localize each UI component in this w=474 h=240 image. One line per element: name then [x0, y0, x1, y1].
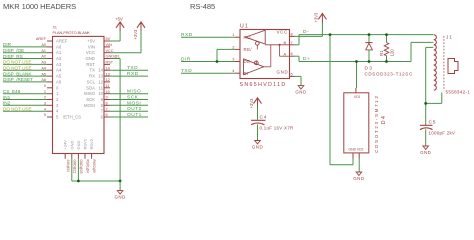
svg-text:A5: A5: [56, 74, 62, 79]
wire net DISP_BLANK at X1 pin A5: [3, 71, 47, 76]
transceiver U1 SN65HVD11D: [240, 23, 290, 88]
svg-text:DE: DE: [244, 59, 251, 64]
wire J1 shield to ground rail: [426, 93, 442, 104]
svg-text:SN65HVD11D: SN65HVD11D: [240, 82, 287, 88]
svg-text:GND@22: GND@22: [72, 160, 76, 174]
supply +3V3 arrow at C4: [249, 98, 261, 109]
svg-text:CS_E48: CS_E48: [3, 89, 21, 94]
svg-text:DO NOT USE: DO NOT USE: [3, 107, 32, 112]
svg-text:RXD: RXD: [127, 71, 139, 77]
svg-text:VIN: VIN: [88, 44, 95, 49]
svg-text:DISP_RS: DISP_RS: [3, 54, 23, 59]
svg-text:I/O1: I/O1: [354, 95, 361, 99]
connector J1 5558342-1: [434, 35, 471, 95]
svg-text:A1: A1: [56, 50, 62, 55]
svg-text:MISO: MISO: [84, 91, 96, 96]
wire D- branch to D4 lower pin: [330, 35, 353, 165]
svg-text:DISP_/RESET: DISP_/RESET: [3, 77, 33, 82]
svg-text:OUT1: OUT1: [127, 112, 142, 118]
svg-text:14: 14: [106, 66, 110, 70]
svg-text:X1: X1: [53, 26, 57, 30]
svg-text:TXD: TXD: [127, 65, 138, 71]
svg-text:D4: D4: [381, 114, 387, 124]
wire net OUT2 from X1: [110, 106, 148, 112]
svg-text:A2: A2: [56, 56, 62, 61]
wire net CS_E48 at X1 pin 1: [3, 89, 47, 94]
svg-text:MISO: MISO: [127, 89, 141, 95]
svg-text:D+: D+: [303, 56, 310, 62]
wire net MOSI from X1: [110, 100, 148, 106]
wire net IN1 at X1 pin 2: [3, 95, 47, 100]
wire U1 VCC to +3V3: [295, 22, 323, 37]
svg-text:GND: GND: [295, 90, 306, 95]
svg-text:A4: A4: [56, 68, 62, 73]
connector X1 MKR header: [53, 26, 105, 154]
svg-text:DISP_/OE: DISP_/OE: [3, 48, 24, 53]
capacitor C5 1000pF 2kV: [420, 120, 455, 146]
svg-text:5V: 5V: [106, 37, 111, 41]
svg-text:12: 12: [98, 79, 103, 84]
svg-text:GND: GND: [76, 141, 81, 150]
junction DIR riser: [216, 60, 219, 63]
svg-text:MOSI: MOSI: [127, 100, 141, 106]
wire net DO NOT USE at X1 pin A4: [3, 66, 47, 71]
svg-text:RSV2@5: RSV2@5: [92, 160, 96, 174]
svg-text:+24V: +24V: [63, 140, 68, 150]
svg-text:J1: J1: [446, 35, 453, 41]
svg-text:8: 8: [106, 102, 108, 106]
wire net RXD from X1: [110, 71, 148, 77]
wire D+ branch to D4 pin1: [356, 62, 358, 89]
svg-text:A0: A0: [56, 44, 62, 49]
U1 right pins 8,7,6,5: [290, 31, 295, 76]
capacitor C4 0.1uF 16V X7R: [251, 106, 293, 140]
svg-text:DIR: DIR: [3, 42, 12, 47]
svg-text:120: 120: [389, 49, 394, 57]
svg-text:A: A: [284, 52, 287, 57]
svg-text:DO NOT USE: DO NOT USE: [3, 60, 32, 65]
svg-text:DISP_BLANK: DISP_BLANK: [3, 71, 32, 76]
svg-text:11: 11: [99, 85, 104, 90]
svg-text:11: 11: [106, 84, 110, 88]
svg-text:DIR: DIR: [181, 56, 191, 62]
svg-text:GND: GND: [420, 150, 431, 155]
svg-text:13: 13: [106, 72, 110, 76]
svg-text:GND@23: GND@23: [79, 160, 83, 174]
wire net DIR at X1 pin A0: [3, 42, 47, 47]
wire net DISP_RS at X1 pin A2: [3, 54, 47, 59]
svg-text:RXD: RXD: [181, 32, 193, 38]
junction D3 top: [368, 33, 371, 36]
wire net RXD to U1 RO: [181, 32, 235, 38]
svg-text:SCK: SCK: [86, 97, 95, 102]
svg-text:10: 10: [106, 90, 110, 94]
svg-text:OUT2: OUT2: [127, 106, 142, 112]
svg-text:A3: A3: [56, 62, 62, 67]
svg-text:24V@21: 24V@21: [66, 160, 70, 173]
wire net SCK from X1: [110, 95, 148, 101]
svg-text:1000pF 2kV: 1000pF 2kV: [429, 131, 456, 136]
svg-text:AREF: AREF: [56, 39, 68, 44]
svg-text:SCL: SCL: [87, 79, 96, 84]
svg-text:MOSI: MOSI: [84, 103, 95, 108]
svg-text:MKR 1000 HEADERS: MKR 1000 HEADERS: [3, 2, 76, 11]
ground symbol at C4: [255, 141, 261, 144]
svg-text:5558342-1: 5558342-1: [446, 89, 471, 94]
svg-text:R1: R1: [379, 50, 384, 56]
wire net OUT1 from X1: [110, 112, 148, 118]
diode array D4 CDSOT23-SM712: [344, 88, 387, 159]
svg-text:RX: RX: [89, 74, 95, 79]
svg-text:GND I/O2: GND I/O2: [349, 148, 364, 152]
wire net TXD to U1 DI: [181, 68, 235, 74]
wire GND net from X1 GND pin: [110, 59, 120, 182]
svg-text:7: 7: [106, 107, 108, 111]
junction D+ branch: [355, 60, 358, 63]
svg-text:GND: GND: [114, 195, 125, 200]
svg-text:RSV1: RSV1: [83, 138, 88, 149]
svg-text:TXD: TXD: [181, 68, 192, 74]
svg-text:14: 14: [98, 68, 103, 73]
svg-text:RO: RO: [244, 35, 252, 40]
junction at ground rail drop: [119, 180, 122, 183]
svg-text:GND: GND: [277, 70, 289, 75]
wire net D- from U1 B to J1: [295, 29, 434, 45]
svg-text:5: 5: [44, 113, 46, 117]
supply +3V3 arrow at U1: [314, 12, 327, 23]
svg-text:+3V3: +3V3: [249, 98, 254, 109]
svg-text:IN2: IN2: [3, 101, 11, 106]
wire net DISP_/OE at X1 pin A1: [3, 48, 47, 53]
resistor R1 120: [379, 35, 394, 62]
diode D3 CDSOD323-T12SC: [365, 35, 413, 77]
wire net DO NOT USE at X1 pin 4: [3, 107, 47, 112]
junction R1 bottom: [385, 60, 388, 63]
ground symbol below X1: [114, 181, 125, 200]
svg-text:RSV1@4: RSV1@4: [86, 160, 90, 174]
svg-text:+5V: +5V: [115, 17, 123, 22]
svg-text:CDSOT23-SM712: CDSOT23-SM712: [374, 94, 379, 153]
junction R1 top: [385, 33, 388, 36]
svg-text:+5V: +5V: [87, 39, 95, 44]
svg-text:D-: D-: [303, 29, 309, 35]
svg-text:DI: DI: [244, 71, 249, 76]
svg-text:C4: C4: [260, 115, 268, 121]
junction ground rail at C5: [424, 102, 427, 105]
wire net D+ from U1 A to J1: [295, 42, 434, 62]
svg-text:/ETH_CS: /ETH_CS: [63, 115, 81, 120]
svg-text:RSV2: RSV2: [89, 138, 94, 149]
svg-text:A6: A6: [56, 79, 62, 84]
wire net IN2 at X1 pin 3: [3, 101, 47, 106]
svg-text:+3V3: +3V3: [314, 12, 319, 23]
svg-text:RST: RST: [86, 62, 95, 67]
junction D- branch: [329, 33, 332, 36]
svg-text:AREF: AREF: [36, 37, 47, 41]
svg-text:B: B: [284, 40, 287, 45]
X1 bottom pin stubs and pad names: [65, 154, 96, 174]
X1 right pin stubs and pad names: [104, 37, 120, 117]
supply +3V3 arrow at X1: [133, 22, 145, 40]
wire J1 pin3 to ground rail: [426, 47, 434, 125]
svg-text:DO NOT USE: DO NOT USE: [3, 66, 32, 71]
wire X1 ground pins to rail: [72, 159, 120, 181]
supply +5V arrow: [115, 17, 124, 31]
svg-text:PLAN-PROTO-BLANK: PLAN-PROTO-BLANK: [53, 30, 91, 35]
svg-text:+3V3: +3V3: [133, 29, 138, 40]
svg-text:TX: TX: [90, 68, 96, 73]
wire D4 ground pin: [358, 159, 360, 173]
wire net DISP_/RESET at X1 pin A6: [3, 77, 47, 82]
svg-text:GND: GND: [252, 144, 263, 149]
svg-text:RS-485: RS-485: [190, 2, 215, 11]
wire +5V net from X1: [110, 31, 120, 42]
svg-text:0.1uF 16V X7R: 0.1uF 16V X7R: [260, 125, 294, 130]
svg-text:C5: C5: [429, 120, 437, 126]
svg-text:U1: U1: [240, 23, 249, 29]
svg-text:VCC: VCC: [277, 29, 288, 34]
wire net DIR to U1 DE and RE: [181, 49, 235, 62]
junction D3 bottom: [368, 60, 371, 63]
svg-text:GND: GND: [85, 56, 95, 61]
ground symbol at U1: [298, 86, 304, 89]
svg-text:10: 10: [98, 91, 103, 96]
svg-text:0: 0: [44, 84, 46, 88]
svg-text:CDSOD323-T12SC: CDSOD323-T12SC: [365, 72, 413, 77]
svg-text:GND: GND: [69, 141, 74, 150]
svg-text:SCK: SCK: [127, 95, 139, 101]
svg-text:RE/: RE/: [244, 47, 253, 52]
wire net MISO from X1: [110, 89, 148, 95]
wire U1 GND to ground: [295, 76, 302, 85]
wire net TXD from X1: [110, 65, 148, 71]
wire net DO NOT USE at X1 pin A3: [3, 60, 47, 65]
U1 left pins 1-4: [232, 32, 240, 73]
svg-text:SDA: SDA: [86, 85, 95, 90]
svg-text:VIN: VIN: [106, 43, 113, 47]
svg-text:GND: GND: [353, 176, 364, 181]
svg-text:13: 13: [98, 74, 103, 79]
svg-text:RST: RST: [106, 61, 114, 65]
svg-text:9: 9: [106, 96, 108, 100]
svg-text:6: 6: [106, 113, 108, 117]
svg-text:12: 12: [106, 78, 110, 82]
ground symbol at C5: [423, 146, 429, 149]
ground symbol at D4: [356, 172, 362, 175]
junction at ground rail pin3: [77, 180, 80, 183]
wire +3V3 net from X1 VCC: [110, 31, 141, 53]
svg-text:VCC: VCC: [86, 50, 95, 55]
X1 left pin stubs and pad names: [36, 37, 53, 117]
svg-text:IN1: IN1: [3, 95, 11, 100]
